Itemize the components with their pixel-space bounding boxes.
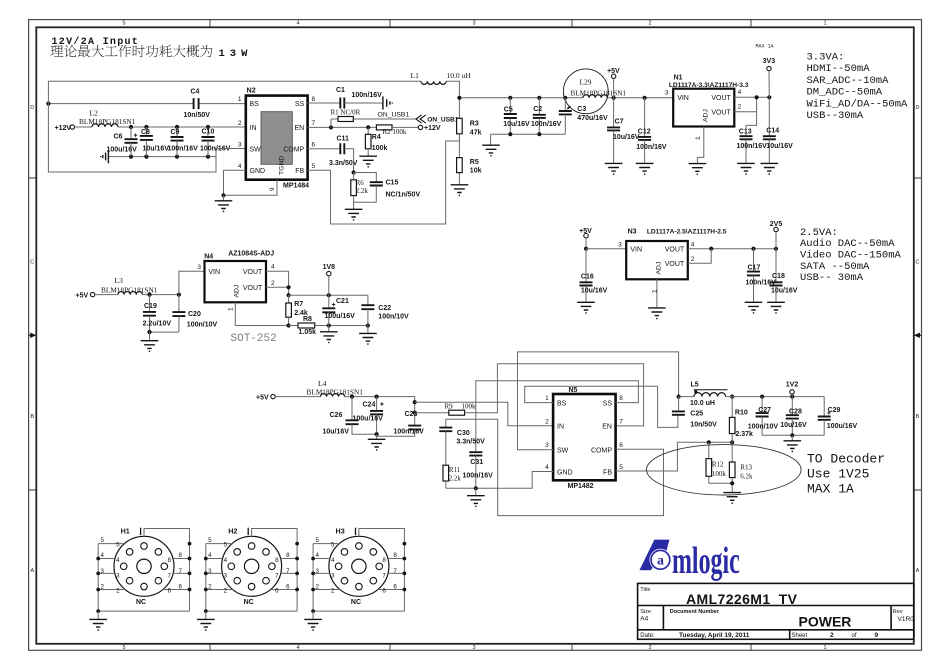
svg-text:1: 1: [823, 21, 826, 27]
wire N4 VOUT pins: [266, 271, 289, 295]
svg-text:Audio DAC--50mA: Audio DAC--50mA: [800, 238, 895, 250]
ground R5: [451, 185, 469, 196]
svg-text:C: C: [916, 260, 920, 266]
svg-text:MP1484: MP1484: [283, 183, 309, 190]
svg-text:L4: L4: [318, 379, 327, 388]
ground C7: [605, 163, 623, 174]
capacitor C6 100u/16V: [130, 127, 132, 139]
svg-text:4: 4: [271, 264, 275, 271]
capacitor C11 3.3n/50V: [340, 143, 344, 154]
svg-text:MAX 1A: MAX 1A: [807, 481, 854, 496]
wire N3 VOUT rail to 2V5: [688, 248, 776, 250]
svg-text:2: 2: [830, 632, 834, 639]
svg-text:C6: C6: [114, 133, 123, 140]
svg-text:R4: R4: [372, 134, 381, 141]
svg-text:Use 1V25: Use 1V25: [807, 467, 869, 482]
svg-text:100k: 100k: [372, 145, 388, 152]
capacitor C10 100n/16V: [207, 127, 209, 137]
svg-text:C17: C17: [748, 265, 761, 272]
svg-text:C20: C20: [188, 311, 201, 318]
svg-text:ON_USB1: ON_USB1: [427, 117, 458, 124]
svg-text:2: 2: [545, 419, 549, 426]
svg-text:+5V: +5V: [76, 292, 89, 299]
svg-text:TGND: TGND: [279, 156, 286, 175]
svg-text:L3: L3: [115, 276, 124, 285]
svg-text:C21: C21: [336, 298, 349, 305]
ground C16: [577, 302, 595, 313]
svg-text:B: B: [30, 414, 34, 420]
svg-text:VIN: VIN: [208, 269, 220, 276]
svg-text:9: 9: [269, 187, 276, 191]
svg-text:470u/16V: 470u/16V: [577, 115, 608, 122]
svg-text:4: 4: [545, 464, 549, 471]
resistor R13 6.2k: [731, 442, 733, 462]
svg-text:8: 8: [619, 395, 623, 402]
svg-text:N5: N5: [569, 387, 578, 394]
resistor R4 100k (EN to ground): [367, 127, 369, 134]
wire +5V to L4: [275, 396, 320, 398]
wire C11 to R6/C15 node: [344, 149, 353, 173]
svg-text:3: 3: [472, 645, 475, 651]
svg-text:R11: R11: [449, 466, 461, 474]
svg-text:+5V: +5V: [256, 395, 269, 402]
wire EN pin 7 net: [308, 126, 377, 128]
svg-text:4: 4: [296, 21, 299, 27]
svg-text:2.5VA:: 2.5VA:: [800, 227, 838, 239]
svg-text:2: 2: [648, 21, 651, 27]
svg-text:10n/50V: 10n/50V: [184, 112, 211, 119]
svg-text:IN: IN: [557, 424, 564, 431]
ground N3 ADJ: [648, 308, 666, 319]
svg-text:GND: GND: [250, 168, 266, 175]
svg-text:2.2k: 2.2k: [356, 187, 369, 195]
connector H2 socket: [197, 528, 299, 630]
capacitor C18 10u/16V: [775, 249, 777, 283]
svg-text:VOUT: VOUT: [665, 247, 685, 254]
resistor R1 NC/0R: [338, 117, 353, 122]
svg-text:100u/16V: 100u/16V: [353, 415, 384, 422]
svg-text:GND: GND: [557, 469, 573, 476]
svg-text:100n/16V: 100n/16V: [463, 473, 494, 480]
capacitor C22 100n/10V: [367, 295, 369, 305]
inductor L5 10.0 uH: [679, 396, 694, 398]
svg-text:TO Decoder: TO Decoder: [807, 452, 885, 467]
resistor R7 2.4k: [288, 295, 290, 303]
ground C18: [767, 302, 785, 313]
svg-text:100u/16V: 100u/16V: [325, 313, 356, 320]
svg-text:of: of: [852, 633, 857, 639]
svg-text:EN: EN: [294, 125, 304, 132]
ferrite bead L3 BLM18PG181SN1: [118, 292, 142, 295]
svg-text:C1: C1: [336, 87, 345, 94]
svg-text:C11: C11: [337, 136, 350, 143]
capacitor C5 10u/16V: [509, 98, 511, 114]
wire node to C15: [354, 173, 377, 183]
ellipse highlight around R12/R13: [647, 445, 802, 495]
ground C24/C26: [376, 434, 378, 439]
svg-text:1.05k: 1.05k: [299, 329, 317, 336]
svg-text:EN: EN: [602, 424, 612, 431]
svg-text:3: 3: [197, 264, 201, 271]
svg-text:100n/10V: 100n/10V: [748, 423, 779, 430]
svg-text:MP1482: MP1482: [568, 483, 594, 490]
svg-text:3: 3: [665, 90, 669, 97]
Amlogic logo @ symbol: [649, 549, 671, 571]
svg-text:2: 2: [648, 645, 651, 651]
wire C19 C20 ground: [150, 331, 179, 333]
resistor R3 47k: [458, 98, 460, 119]
wire 5V rail: [459, 97, 583, 99]
IC N4 AZ1084S-ADJ: [205, 261, 267, 302]
svg-text:ON_USB1: ON_USB1: [378, 112, 410, 119]
ground N5 GND: [475, 488, 477, 495]
svg-text:100k: 100k: [462, 402, 477, 410]
svg-text:B: B: [916, 414, 920, 420]
svg-text:SW: SW: [250, 146, 262, 153]
wire N5 COMP pin 6 loop to C30/R11: [446, 419, 664, 515]
resistor R8 1.05k: [289, 325, 298, 327]
svg-text:8: 8: [312, 96, 316, 103]
capacitor C3 470u/16V: [564, 98, 566, 111]
svg-text:Date:: Date:: [640, 633, 655, 639]
svg-text:BLM18PG181SN1: BLM18PG181SN1: [307, 388, 364, 397]
svg-text:ADJ: ADJ: [656, 262, 663, 275]
svg-text:COMP: COMP: [283, 146, 304, 153]
svg-text:BLM18PG181SN1: BLM18PG181SN1: [79, 117, 136, 126]
wire L2 to N2 IN pin 2: [118, 126, 246, 128]
svg-text:1V2: 1V2: [786, 382, 799, 389]
svg-text:R5: R5: [470, 159, 479, 166]
svg-text:C3: C3: [577, 106, 586, 113]
svg-text:47k: 47k: [470, 130, 482, 137]
wire N5 SS pin 8 to C31 loop: [476, 381, 639, 452]
svg-text:C16: C16: [581, 273, 594, 280]
capacitor C4 10n/50V: [194, 98, 199, 109]
svg-text:C28: C28: [789, 409, 802, 416]
svg-text:USB-- 30mA: USB-- 30mA: [800, 272, 864, 284]
svg-text:3: 3: [618, 242, 622, 249]
wire BS net with C4: [48, 103, 193, 105]
svg-text:SATA --50mA: SATA --50mA: [800, 261, 870, 273]
wire SS pin 8 to C1: [308, 102, 341, 104]
svg-text:N3: N3: [628, 228, 637, 235]
svg-text:3: 3: [545, 442, 549, 449]
svg-text:10u/16V: 10u/16V: [780, 422, 807, 429]
wire R9 to N5 EN pin 7: [465, 364, 644, 426]
svg-text:C19: C19: [144, 303, 157, 310]
svg-text:5: 5: [312, 163, 316, 170]
svg-text:+12V: +12V: [424, 125, 441, 132]
capacitor C8 10u/16V: [145, 127, 147, 136]
svg-text:100k: 100k: [712, 470, 727, 478]
svg-text:1: 1: [823, 645, 826, 651]
svg-text:2: 2: [738, 104, 742, 111]
wire COMP pin 6 to C11: [308, 148, 341, 150]
svg-text:100n/16V: 100n/16V: [531, 121, 562, 128]
svg-text:C18: C18: [772, 273, 785, 280]
wire +5V node to N5 IN pin 2: [415, 402, 553, 426]
capacitor C2 100n/16V: [538, 98, 540, 115]
wire C1 to ground: [344, 102, 382, 104]
svg-text:VOUT: VOUT: [243, 285, 263, 292]
wire N1 VOUT pins to 3V3: [734, 96, 769, 98]
svg-text:10u/16V: 10u/16V: [613, 134, 640, 141]
wire C27 C28 C29 ground bus: [762, 434, 824, 436]
svg-text:1: 1: [695, 136, 702, 140]
border left arrow marker: [29, 334, 32, 336]
svg-text:C8: C8: [141, 129, 150, 136]
capacitor C16 10u/16V: [585, 249, 587, 283]
capacitor C12 100n/16V: [644, 98, 646, 137]
wire R8 to C21/C22 ground nodes: [315, 325, 368, 327]
svg-text:4: 4: [691, 242, 695, 249]
wire +5V to L3: [95, 294, 118, 296]
svg-text:2.2u/10V: 2.2u/10V: [143, 321, 172, 328]
svg-text:Title: Title: [640, 587, 650, 593]
svg-text:L2: L2: [90, 108, 99, 117]
svg-text:DM_ADC--50mA: DM_ADC--50mA: [807, 87, 883, 99]
ground (rotated right) C1: [383, 96, 392, 109]
wire N1 ADJ pin 1 to ground: [697, 127, 703, 164]
svg-text:Document Number: Document Number: [670, 609, 720, 615]
wire +5V to N3 VIN: [586, 248, 626, 250]
svg-text:C: C: [30, 260, 34, 266]
svg-text:+12V: +12V: [55, 125, 72, 132]
svg-text:3V3: 3V3: [763, 58, 776, 65]
svg-text:WiFi_AD/DA--50mA: WiFi_AD/DA--50mA: [807, 98, 909, 110]
svg-text:1: 1: [545, 395, 549, 402]
svg-text:BS: BS: [557, 400, 567, 407]
capacitor C17 100n/16V: [753, 249, 755, 272]
ferrite bead L4 BLM18PG181SN1: [321, 394, 345, 397]
svg-text:VIN: VIN: [630, 247, 642, 254]
svg-text:ADJ: ADJ: [703, 109, 710, 122]
svg-text:3: 3: [238, 141, 242, 148]
svg-text:10n/50V: 10n/50V: [690, 422, 717, 429]
ground C14: [761, 163, 779, 174]
svg-text:4: 4: [238, 163, 242, 170]
wire N4 ADJ pin 1: [235, 302, 288, 325]
svg-text:100n/16V: 100n/16V: [394, 429, 425, 436]
svg-text:SAR_ADC--10mA: SAR_ADC--10mA: [807, 75, 890, 87]
svg-text:C7: C7: [615, 118, 624, 125]
off-page connector ON_USB1: [416, 115, 426, 123]
svg-text:100n/16V: 100n/16V: [200, 146, 231, 153]
svg-text:USB--30mA: USB--30mA: [807, 110, 864, 122]
capacitor C7 10u/16V: [613, 98, 615, 128]
svg-text:HDMI--50mA: HDMI--50mA: [807, 63, 871, 75]
capacitor C31 100n/16V: [469, 452, 482, 455]
ground N2 GND: [223, 195, 225, 201]
svg-text:BS: BS: [250, 101, 260, 108]
svg-text:13W: 13W: [219, 48, 253, 60]
wire N5 GND pin 4: [446, 472, 553, 489]
IC N2 MP1484: [246, 96, 308, 180]
capacitor C27 100n/10V: [761, 397, 763, 414]
svg-text:VIN: VIN: [677, 95, 689, 102]
svg-text:5: 5: [122, 21, 125, 27]
svg-text:FB: FB: [603, 469, 612, 476]
capacitor C23 100n/16V: [414, 413, 416, 426]
svg-text:C22: C22: [378, 305, 391, 312]
svg-text:12V/2A Input: 12V/2A Input: [52, 36, 140, 48]
svg-text:100n/16V: 100n/16V: [636, 144, 667, 151]
svg-text:C30: C30: [457, 430, 470, 437]
svg-text:N2: N2: [247, 86, 256, 95]
svg-text:LD1117A-2.5\AZ1117H-2.5: LD1117A-2.5\AZ1117H-2.5: [647, 228, 727, 235]
svg-text:V1R0: V1R0: [898, 616, 915, 623]
svg-text:NC/1n/50V: NC/1n/50V: [386, 191, 421, 198]
resistor R2 100k (series to +12V): [376, 125, 392, 130]
wire R6/C15 bottoms: [354, 186, 377, 210]
wire +12V to L2: [75, 126, 93, 128]
svg-text:BLM18PG181SN1: BLM18PG181SN1: [571, 90, 627, 98]
svg-text:4: 4: [296, 645, 299, 651]
IC N5 MP1482: [553, 394, 616, 480]
terminal +12V at R2: [392, 126, 418, 128]
wire R1 branch: [330, 119, 332, 127]
border right arrow marker: [919, 334, 922, 336]
svg-text:10.0 uH: 10.0 uH: [447, 71, 472, 80]
svg-text:100n/16V: 100n/16V: [737, 143, 768, 150]
wire SW bootstrap loop: [48, 81, 421, 172]
svg-text:POWER: POWER: [799, 613, 852, 629]
svg-text:VOUT: VOUT: [243, 269, 263, 276]
svg-text:L5: L5: [691, 382, 699, 389]
svg-text:SS: SS: [603, 400, 613, 407]
inductor L1 10.0 uH: [421, 81, 446, 84]
wire VOUT node to C21/C22: [289, 294, 368, 296]
svg-text:7: 7: [312, 120, 316, 127]
svg-text:C9: C9: [171, 129, 180, 136]
wire C5 C2 C3 ground bus: [491, 133, 566, 135]
svg-text:100n/10V: 100n/10V: [378, 314, 409, 321]
node IN rail junction dots: [129, 125, 133, 129]
svg-text:D: D: [916, 105, 920, 111]
svg-text:10k: 10k: [470, 168, 482, 175]
svg-text:C2: C2: [533, 106, 542, 113]
wire L5 to 1V2 rail: [726, 396, 825, 398]
ground (rotated left) input bus: [101, 150, 109, 163]
wire N5 SW pin 3 loop to L5 node: [518, 352, 679, 450]
capacitor C26 10u/16V: [351, 397, 353, 421]
svg-text:C10: C10: [202, 129, 215, 136]
svg-text:LD1117A-3.3\AZ1117H-3.3: LD1117A-3.3\AZ1117H-3.3: [669, 82, 749, 89]
svg-text:C26: C26: [330, 412, 343, 419]
title block table: [638, 583, 914, 639]
svg-text:L1: L1: [411, 71, 420, 80]
svg-text:a: a: [657, 553, 664, 568]
capacitor C24 100u/16V: [376, 397, 378, 411]
wire N3 VOUT pin 2: [688, 249, 711, 264]
capacitor C29 100u/16V: [823, 397, 825, 417]
capacitor C21 100u/16V: [328, 295, 330, 308]
svg-text:SS: SS: [295, 101, 305, 108]
ground C22: [367, 326, 369, 334]
svg-text:C29: C29: [828, 407, 841, 414]
wire R12/R13 bottoms to ground: [709, 483, 732, 492]
svg-text:R13: R13: [740, 464, 752, 472]
svg-text:R8: R8: [303, 316, 312, 323]
ground R12/R13: [723, 493, 741, 504]
svg-text:AZ1084S-ADJ: AZ1084S-ADJ: [228, 251, 274, 258]
capacitor C1 100n/16V: [340, 98, 344, 109]
svg-text:3: 3: [472, 21, 475, 27]
svg-text:A4: A4: [640, 616, 648, 623]
svg-text:C14: C14: [766, 127, 779, 134]
svg-text:1: 1: [652, 289, 659, 293]
wire N3 ADJ pin to ground: [656, 279, 658, 308]
svg-text:R7: R7: [294, 301, 303, 308]
wire L3 to N4 VIN: [142, 294, 179, 296]
svg-text:C31: C31: [470, 459, 483, 466]
capacitor C19 2.2u/10V: [149, 295, 151, 312]
ground N1 ADJ: [689, 164, 707, 175]
ground C12: [636, 163, 654, 174]
ground output caps: [784, 441, 802, 452]
IC N3 LD1117A-2.5: [626, 241, 688, 279]
wire C13 jog: [746, 112, 757, 137]
svg-text:mlogic: mlogic: [672, 539, 740, 581]
svg-text:10u/16V: 10u/16V: [581, 288, 608, 295]
svg-text:AML7226M1_TV: AML7226M1_TV: [686, 591, 798, 607]
svg-text:C24: C24: [363, 401, 376, 408]
svg-text:R9: R9: [445, 402, 454, 410]
svg-text:IN: IN: [250, 125, 257, 132]
wire input caps ground bus: [109, 156, 216, 158]
svg-text:R1 NC/0R: R1 NC/0R: [331, 108, 361, 116]
svg-text:Tuesday, April 19, 2011: Tuesday, April 19, 2011: [679, 632, 750, 639]
svg-text:3.3n/50V: 3.3n/50V: [456, 439, 485, 446]
resistor R11 2.2k: [443, 465, 449, 481]
svg-text:3.3VA:: 3.3VA:: [807, 52, 845, 64]
resistor R5 10k: [457, 158, 463, 173]
svg-text:H2: H2: [228, 527, 237, 536]
ground C19/C20: [141, 341, 159, 352]
svg-text:A: A: [30, 568, 34, 574]
svg-text:N1: N1: [674, 75, 683, 82]
svg-text:10u/16V: 10u/16V: [143, 146, 170, 153]
svg-text:10u/16V: 10u/16V: [771, 288, 798, 295]
resistor R9 100k: [415, 412, 449, 414]
svg-text:2: 2: [271, 280, 275, 287]
svg-text:SW: SW: [557, 447, 569, 454]
capacitor C28 10u/16V: [791, 397, 793, 416]
svg-text:VOUT: VOUT: [711, 109, 731, 116]
capacitor C25 10n/50V: [678, 397, 680, 412]
ground R6: [345, 209, 363, 220]
wire N2 GND pin 4 to ground: [224, 170, 278, 195]
svg-text:4: 4: [738, 89, 742, 96]
capacitor C14 10u/16V: [768, 97, 770, 136]
svg-text:100u/16V: 100u/16V: [827, 423, 858, 430]
wire L4 to +5V node: [345, 397, 415, 413]
Amlogic logo sail: [639, 540, 669, 571]
svg-text:1: 1: [238, 96, 242, 103]
svg-text:D: D: [30, 105, 34, 111]
connector H1 socket: [89, 528, 191, 630]
svg-text:6: 6: [619, 442, 623, 449]
svg-text:Size: Size: [640, 609, 651, 615]
note: Chinese annotation 理论最大工作时功耗大概为13W: [50, 45, 212, 57]
IC N1 LD1117A-3.3: [673, 89, 734, 127]
svg-text:100u/16V: 100u/16V: [107, 147, 138, 154]
svg-text:C12: C12: [638, 129, 651, 136]
svg-text:2: 2: [238, 120, 242, 127]
capacitor C15 NC/1n/50V: [370, 182, 383, 185]
svg-text:5: 5: [122, 645, 125, 651]
svg-text:1V8: 1V8: [323, 264, 336, 271]
